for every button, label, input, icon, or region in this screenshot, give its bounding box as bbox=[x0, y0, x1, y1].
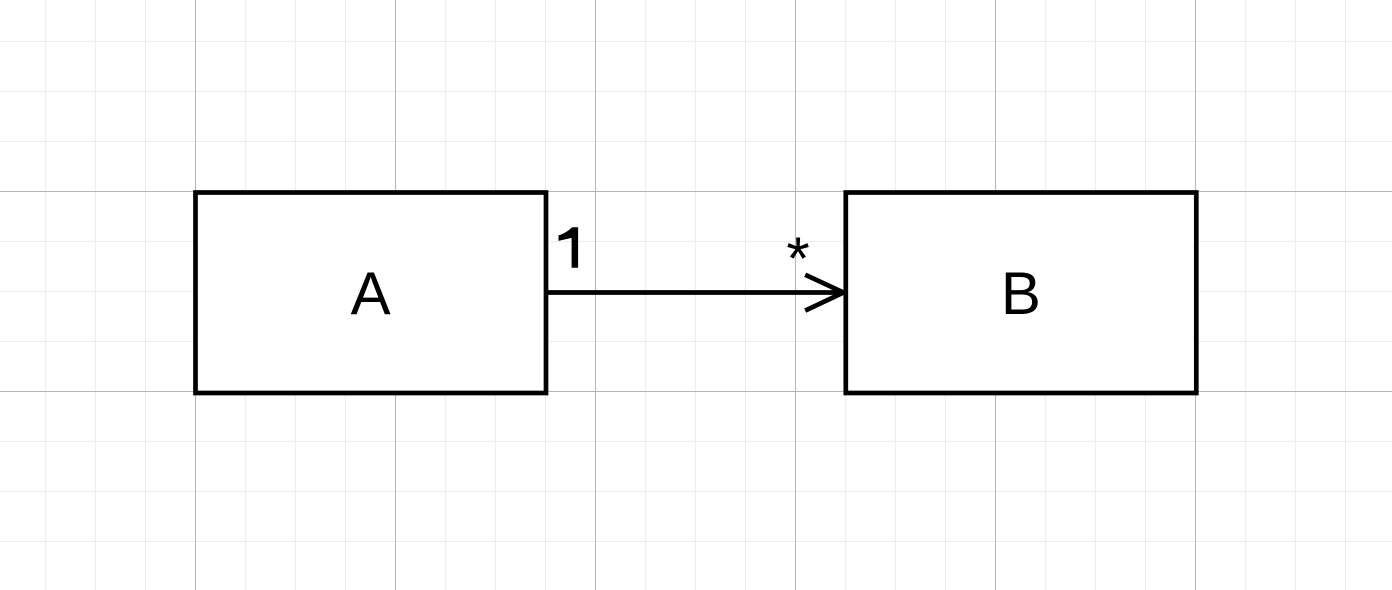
svg-text:A: A bbox=[351, 260, 391, 327]
multiplicity label 1 (source end) bbox=[559, 227, 579, 268]
association arrow from A to B bbox=[546, 275, 844, 311]
multiplicity label * (target end) bbox=[786, 225, 809, 292]
svg-text:*: * bbox=[786, 225, 809, 292]
label B bbox=[1001, 260, 1041, 327]
class box A bbox=[196, 193, 547, 394]
label A bbox=[351, 260, 391, 327]
class box B bbox=[846, 193, 1197, 394]
svg-text:B: B bbox=[1001, 260, 1041, 327]
